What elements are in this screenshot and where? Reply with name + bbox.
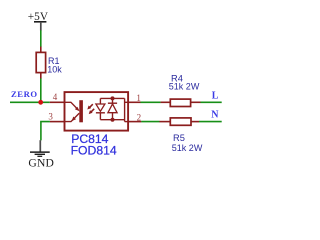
light arrow b bbox=[89, 109, 95, 114]
svg-text:3: 3 bbox=[48, 111, 53, 121]
wire +5V to R1 bbox=[40, 30, 42, 47]
wire pin1 to R4 bbox=[141, 101, 161, 103]
LED pair bottom rail bbox=[100, 119, 124, 121]
wire ZERO net bbox=[10, 101, 50, 103]
LED pair right vertical bbox=[124, 98, 126, 121]
pin 2 bbox=[125, 121, 142, 123]
svg-text:2: 2 bbox=[137, 113, 142, 123]
svg-text:R5: R5 bbox=[173, 133, 185, 143]
LED pair top rail bbox=[100, 97, 124, 99]
LED pair node dot bottom bbox=[111, 118, 115, 122]
power +5V bbox=[28, 11, 49, 30]
svg-text:ZERO: ZERO bbox=[11, 89, 38, 99]
svg-text:4: 4 bbox=[53, 92, 58, 102]
svg-text:1: 1 bbox=[136, 93, 141, 103]
op-to-coupler U1 body bbox=[65, 92, 129, 131]
ground bbox=[28, 140, 54, 169]
transistor emitter path bbox=[65, 113, 80, 121]
light arrow a bbox=[87, 104, 93, 109]
pin 1 bbox=[125, 101, 141, 103]
transistor Q (photo) collector path bbox=[65, 102, 79, 110]
svg-text:51k 2W: 51k 2W bbox=[172, 143, 203, 153]
wire pin2 to R5 bbox=[141, 121, 159, 123]
pin 4 bbox=[50, 101, 65, 103]
LED pair node dot top bbox=[111, 96, 115, 100]
wire R5 to N bbox=[199, 121, 222, 123]
junction node ZERO bbox=[38, 100, 43, 105]
transistor emitter arrowhead bbox=[72, 117, 76, 122]
wire R4 to L bbox=[201, 101, 222, 103]
svg-text:N: N bbox=[211, 110, 219, 121]
resistor R1 bbox=[36, 47, 45, 79]
pin 3 bbox=[50, 121, 65, 123]
transistor base bar bbox=[79, 100, 83, 122]
svg-text:51k 2W: 51k 2W bbox=[169, 82, 200, 92]
svg-text:FOD814: FOD814 bbox=[71, 144, 117, 158]
LED D1 (cathode down) bbox=[96, 98, 105, 119]
svg-text:10k: 10k bbox=[47, 65, 62, 75]
wire R1 to junction bbox=[40, 78, 42, 102]
LED D2 (cathode up) bbox=[108, 98, 117, 119]
resistor R5 bbox=[159, 118, 199, 125]
svg-text:L: L bbox=[212, 91, 219, 102]
wire pin3 to GND bbox=[41, 122, 50, 141]
resistor R4 bbox=[161, 99, 201, 106]
transistor collector arrowhead bbox=[75, 107, 80, 112]
svg-text:GND: GND bbox=[28, 157, 54, 170]
